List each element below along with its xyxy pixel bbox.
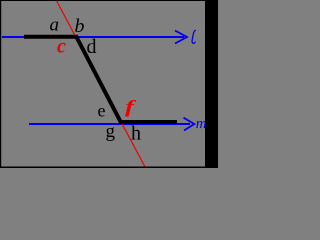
- svg-text:c: c: [57, 34, 67, 58]
- svg-text:a: a: [50, 15, 60, 36]
- bottom border: [0, 167, 218, 169]
- red transversal line: [57, 1, 145, 167]
- thick black segment on line m: [119, 120, 177, 124]
- top border: [0, 0, 218, 1]
- line m (blue): [29, 123, 190, 125]
- left border: [0, 0, 1, 168]
- svg-text:h: h: [131, 123, 141, 145]
- line l (blue): [2, 36, 184, 38]
- svg-text:d: d: [87, 36, 97, 58]
- svg-text:m: m: [196, 116, 207, 132]
- svg-text:e: e: [98, 101, 106, 121]
- arrow of line m: [184, 118, 195, 131]
- svg-text:g: g: [106, 121, 116, 142]
- thick black transversal segment: [77, 37, 121, 122]
- right black band: [205, 0, 218, 168]
- arrow of line l: [175, 31, 187, 44]
- line label l (blue): [192, 30, 196, 43]
- thick black segment on line l: [24, 35, 78, 39]
- svg-text:b: b: [75, 16, 85, 37]
